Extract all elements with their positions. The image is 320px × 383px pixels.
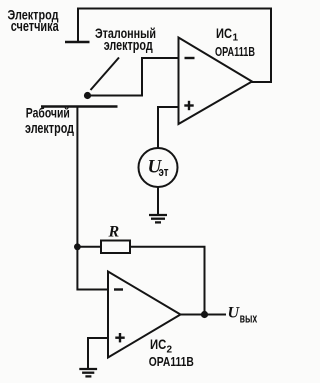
- working electrode plate: [41, 105, 118, 108]
- wire noninverting input of U2 to ground: [88, 338, 108, 369]
- svg-text:Рабочий: Рабочий: [26, 105, 70, 121]
- node output junction: [201, 311, 208, 318]
- resistor R body: [101, 241, 130, 254]
- svg-text:U: U: [228, 305, 241, 322]
- pin plus U2: [115, 333, 124, 342]
- svg-text:электрод: электрод: [104, 37, 153, 54]
- svg-text:OPA111B: OPA111B: [215, 44, 255, 59]
- svg-text:ИС: ИС: [216, 25, 232, 41]
- svg-text:1: 1: [233, 33, 239, 44]
- svg-text:счетчика: счетчика: [11, 18, 59, 35]
- node feedback tap on inverting input wire: [74, 243, 81, 250]
- counter electrode plate: [65, 41, 90, 44]
- wire reference electrode to inverting input of U1: [88, 58, 179, 96]
- ground under U2 noninverting input: [79, 369, 97, 376]
- op-amp U1 ИС1 OPA111B: [179, 38, 253, 125]
- svg-text:OPA111B: OPA111B: [149, 354, 194, 369]
- svg-text:электрод: электрод: [25, 120, 74, 137]
- wire resistor R to output node: [130, 247, 205, 315]
- pin minus U2: [114, 288, 123, 290]
- wire noninverting input of U1 to Uet source: [158, 107, 179, 148]
- svg-text:ИС: ИС: [150, 336, 166, 352]
- svg-text:эт: эт: [159, 164, 169, 179]
- wire Uet source to ground: [157, 187, 159, 215]
- wire working electrode down to inverting input of U2: [77, 108, 108, 290]
- svg-text:R: R: [108, 224, 120, 241]
- reference electrode probe (diagonal): [91, 58, 120, 91]
- pin plus U1: [184, 101, 193, 110]
- ground under Uet source: [149, 215, 167, 222]
- wire U2 output to Uout: [181, 314, 227, 316]
- wire left node to resistor R: [77, 246, 101, 248]
- pin minus U1: [185, 57, 195, 59]
- wire top feedback from output of U1 to counter electrode: [78, 9, 271, 83]
- svg-text:вых: вых: [240, 310, 258, 325]
- voltage source Uet circle: [139, 148, 178, 187]
- op-amp U2 ИС2 OPA111B: [108, 272, 181, 358]
- node reference electrode junction: [84, 92, 91, 99]
